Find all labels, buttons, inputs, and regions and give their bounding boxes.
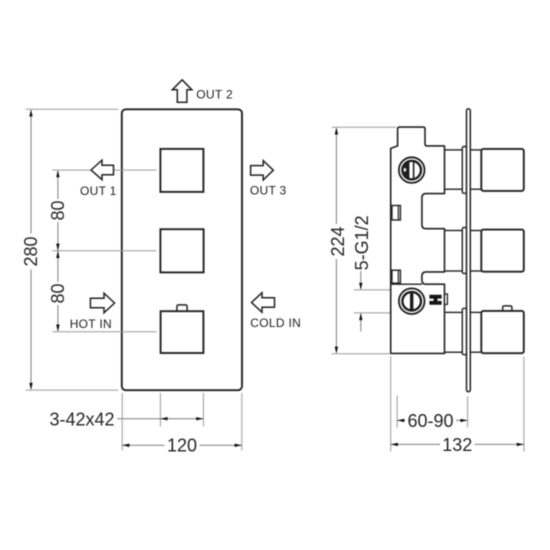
dimension 132 line [391, 443, 524, 445]
svg-text:80: 80 [48, 283, 68, 303]
extension line top of plate (280 dim) [26, 108, 119, 110]
dimension 60-90 arrowheads [397, 419, 468, 422]
screw upper outer ring [399, 157, 425, 183]
extension line G1/2 lower [354, 312, 390, 314]
flow arrow OUT 2 (up) [172, 80, 192, 103]
front plate [122, 109, 242, 390]
extension line 60-90 right [467, 397, 469, 428]
extension line below plate left (120 dim) [121, 393, 123, 451]
knob row 3 [481, 311, 524, 353]
svg-text:60-90: 60-90 [407, 411, 453, 431]
escutcheon flange row 2 [462, 228, 466, 274]
escutcheon flange row 1 [462, 147, 466, 194]
center line row 3 (HOT IN) [52, 331, 156, 333]
svg-text:OUT 2: OUT 2 [196, 87, 233, 101]
dimension 80/80 line [57, 171, 59, 331]
extension line below square left (42 dim) [159, 393, 161, 427]
dimension 120 arrowheads [122, 444, 242, 447]
knob row 1 [481, 149, 524, 191]
extension line below plate right (120 dim) [241, 393, 243, 451]
wall plate (side) [467, 109, 471, 392]
extension line 132 left [390, 357, 392, 452]
body internal line (lower block top edge) [391, 283, 422, 285]
svg-text:5-G1/2: 5-G1/2 [352, 215, 372, 270]
square handle 1 [160, 149, 203, 192]
dimension 3-42x42 arrowheads [160, 417, 203, 420]
valve body outline [391, 127, 445, 353]
inlet stub lower [392, 270, 401, 283]
body side sensor tab [445, 294, 448, 304]
center line row 2 [52, 250, 156, 252]
dimension 280 line [30, 111, 32, 389]
svg-text:280: 280 [21, 236, 41, 266]
square handle 2 [160, 229, 203, 272]
extension line G1/2 upper [354, 289, 390, 291]
hot marking H icon [429, 295, 441, 305]
svg-text:224: 224 [328, 226, 348, 256]
square handle 3 [161, 311, 204, 353]
flow arrow OUT 1 (left) [91, 160, 114, 180]
screw lower slot bar [410, 292, 413, 310]
svg-text:OUT 1: OUT 1 [80, 184, 117, 198]
knob row 3 button tab [503, 306, 512, 313]
extension line below square right (42 dim) [202, 393, 204, 427]
cartridge cylinder row 1 [444, 150, 482, 189]
cartridge cylinder row 2 [444, 231, 482, 272]
dimension 132 arrowheads [391, 443, 524, 446]
svg-text:3-42x42: 3-42x42 [49, 410, 114, 430]
dimension 80/80 arrowheads [56, 170, 59, 332]
inlet stub upper [392, 206, 401, 221]
cartridge cylinder row 3 [444, 312, 482, 352]
knob row 2 [481, 230, 524, 272]
center line row 1 (OUT 1) [52, 169, 156, 171]
extension line 60-90 left [396, 396, 398, 428]
dimension 3-42x42 line and leader [117, 418, 203, 420]
screw lower outer ring [399, 288, 425, 314]
svg-text:120: 120 [167, 436, 197, 456]
extension line body bottom (224 dim) [332, 353, 390, 355]
dimension 224 arrowheads [335, 127, 338, 353]
dimension 5-G1/2 line [360, 271, 362, 332]
svg-text:OUT 3: OUT 3 [250, 184, 287, 198]
flow arrow COLD IN (left) [252, 293, 275, 313]
svg-text:132: 132 [442, 435, 472, 455]
extension line body top (224 dim) [332, 126, 396, 128]
svg-text:80: 80 [48, 200, 68, 220]
extension line 132 right [523, 357, 525, 452]
dimension 280 arrowheads [29, 109, 32, 390]
square handle 3 button tab [177, 305, 187, 313]
dimension 5-G1/2 arrowheads [359, 283, 362, 320]
extension line bottom of plate (280 dim) [26, 389, 119, 391]
flow arrow OUT 3 (right) [251, 161, 274, 180]
screw upper slot [404, 162, 410, 179]
svg-text:HOT IN: HOT IN [70, 317, 112, 331]
escutcheon flange row 3 [462, 308, 466, 354]
flow arrow HOT IN (right) [90, 293, 114, 313]
svg-text:COLD IN: COLD IN [250, 316, 301, 330]
dimension 60-90 line [397, 419, 468, 421]
dimension 120 line [122, 444, 242, 446]
dimension 224 line [335, 129, 337, 352]
